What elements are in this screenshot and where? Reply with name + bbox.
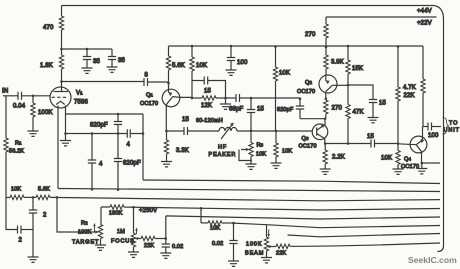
svg-text:0.02: 0.02 (212, 241, 223, 247)
node peaker tap (250, 97, 253, 100)
capacitor 100 (output) (423, 123, 442, 131)
svg-text:SeekIC.com: SeekIC.com (408, 255, 457, 265)
rail B (22V feed) (169, 45, 424, 47)
node A (470/1.8K junction) (60, 48, 63, 51)
svg-text:PEAKER: PEAKER (209, 152, 237, 158)
resistor 47K (346, 85, 350, 144)
resistor 270 (from +22V) (324, 17, 328, 47)
node beam wiper (268, 245, 271, 248)
svg-text:2.2K: 2.2K (332, 155, 345, 161)
svg-text:15: 15 (182, 117, 189, 123)
svg-text:820pF: 820pF (90, 123, 108, 129)
capacitor 0.04 (18, 92, 50, 100)
bus line L1 (143, 180, 440, 184)
resistor 12K (series) (192, 96, 236, 100)
svg-text:35: 35 (118, 58, 125, 64)
transistor Q2 OC170 (319, 75, 348, 93)
svg-text:R1: R1 (15, 141, 22, 147)
bus line L7 (288, 234, 441, 237)
ground (BEAM) (261, 258, 272, 263)
bus line L4 (+260V) (101, 207, 440, 210)
svg-text:470: 470 (43, 25, 54, 31)
resistor 100K (grid leak) (31, 96, 35, 131)
svg-text:10K: 10K (210, 226, 220, 232)
capacitor 4 (vertical, to heater bus) (88, 134, 96, 190)
transistor Q1 OC170 (162, 83, 192, 107)
svg-text:1.8K: 1.8K (40, 63, 53, 69)
capacitor 2 (horizontal) (6, 198, 33, 234)
svg-text:TARGET: TARGET (72, 240, 99, 246)
capacitor 8 (coupling) (144, 78, 169, 86)
node 47K join (347, 142, 350, 145)
svg-text:3.3K: 3.3K (176, 148, 189, 154)
svg-text:0.02: 0.02 (172, 244, 183, 250)
svg-text:OC170: OC170 (299, 143, 317, 149)
svg-text:10K: 10K (256, 152, 266, 158)
potentiometer 1M FOCUS (131, 207, 141, 252)
ground (2.2K) (320, 169, 331, 174)
resistor 10K (rail feed to peaker column) (273, 45, 277, 131)
wire input (3, 95, 18, 97)
ground (0.02 focus) (160, 253, 171, 258)
node L3 at 57 (56, 196, 59, 199)
node L2 at 118 (117, 188, 120, 191)
node R3 top (250, 130, 253, 133)
+44V rail (62, 6, 444, 20)
ground (100 cap) (226, 70, 237, 75)
ground (35 first) (82, 68, 93, 73)
ground (10K damper) (271, 163, 282, 168)
svg-text:56.2K: 56.2K (9, 149, 24, 155)
resistor 10K (Q4 base to ground) (396, 144, 400, 170)
svg-text:+44V: +44V (417, 9, 432, 15)
resistor 270 (Q2 emitter) (324, 100, 328, 119)
node 15K rail (347, 45, 350, 48)
svg-text:15: 15 (257, 107, 264, 113)
svg-text:OC170: OC170 (297, 89, 315, 95)
svg-text:10K: 10K (11, 187, 21, 193)
capacitor 35 (second) (108, 49, 116, 67)
+22V rail (326, 16, 437, 18)
resistor 5.6K (Q1 base bias) (166, 46, 170, 83)
svg-text:Q2: Q2 (305, 80, 312, 86)
svg-text:4: 4 (99, 162, 103, 168)
svg-text:TO: TO (449, 121, 458, 127)
svg-text:270: 270 (332, 106, 343, 112)
svg-text:R3: R3 (257, 143, 264, 149)
svg-text:820pF: 820pF (123, 161, 141, 167)
wire peaker line (237, 130, 313, 132)
bus line L5 (166, 216, 440, 239)
node plate (1.8K / tube plate junction) (60, 80, 63, 83)
node grid input (32, 95, 35, 98)
svg-text:15: 15 (367, 134, 374, 140)
svg-text:Q1: Q1 (146, 93, 153, 99)
ground (R3) (246, 164, 257, 169)
capacitor 15 (series to Q4 base) (371, 140, 416, 148)
wire Q3 emitter to Q4 (325, 143, 371, 145)
node X focus RC (165, 237, 168, 240)
svg-text:270: 270 (305, 32, 316, 38)
ground (15 bypass) (368, 118, 379, 123)
vacuum tube V1 7586 (50, 82, 71, 109)
capacitor 4 (horizontal, series) (127, 129, 130, 137)
bus line L3 (6, 195, 440, 201)
node main wire end at Q2 emitter (325, 97, 328, 100)
brace TO UNIT (443, 118, 449, 135)
node L3 at 33 (32, 196, 35, 199)
svg-text:47K: 47K (353, 110, 364, 116)
svg-text:Q4: Q4 (404, 157, 411, 163)
bus line L6 (234, 223, 441, 228)
svg-text:7586: 7586 (74, 100, 88, 106)
ground (R2) (95, 245, 106, 250)
svg-text:22K: 22K (144, 243, 154, 249)
wire Q2 base bypass (348, 85, 373, 100)
ground (FOCUS) (128, 252, 139, 257)
svg-text:V1: V1 (76, 91, 83, 97)
wire cathode branch to bypass network (66, 113, 144, 115)
resistor 3.9K (Q2 collector) (324, 47, 328, 77)
ground (3.3K) (161, 162, 172, 167)
node Q2 base (347, 84, 350, 87)
wire Q4 emitter (421, 152, 423, 163)
ground (cathode) (60, 134, 71, 146)
resistor 3.3K (Q1 emitter) (164, 131, 168, 162)
potentiometer R3 10K (HF peaker) (239, 131, 253, 164)
bus line L8 (290, 243, 440, 246)
svg-text:OC170: OC170 (401, 164, 419, 170)
node wireB at 143 (142, 132, 145, 135)
resistor 470 (59, 6, 63, 50)
resistor 4.7K (Q4 collector) (421, 46, 425, 127)
capacitor 15 (Q2 base bypass) (369, 100, 377, 118)
svg-text:100: 100 (237, 60, 248, 66)
wire cathode bottom bus (66, 133, 144, 135)
svg-text:100: 100 (428, 133, 439, 139)
wire Q1 emitter (165, 105, 167, 131)
wire decoupled rail from node A (62, 48, 113, 50)
wire target wiper feed (57, 197, 96, 232)
inductor 60-120mH (variable) (219, 123, 237, 140)
capacitor 15 (emitter series to peaker) (167, 127, 220, 135)
svg-text:100K: 100K (38, 110, 53, 116)
svg-text:5.6K: 5.6K (172, 63, 185, 69)
wire cathode lead down (65, 106, 67, 134)
transistor Q4 OC170 (410, 127, 427, 153)
capacitor 15 (peaker series) (247, 98, 255, 131)
right edge vertical bus line (438, 19, 444, 252)
wire Q2 emitter (325, 91, 327, 100)
wire heater lead down from tube (57, 106, 59, 189)
resistor 22K (focus wiper) (141, 236, 166, 240)
svg-text:2: 2 (43, 213, 47, 219)
resistor 22K (Q4 base bias) (396, 45, 400, 143)
resistor 10K (peaker damper) (274, 131, 278, 163)
capacitor 820pF (second) (114, 134, 122, 190)
ground (2 caps) (28, 230, 39, 263)
svg-text:+22V: +22V (417, 21, 432, 27)
node wireB at 92 (91, 132, 94, 135)
resistor 15K (346, 46, 350, 85)
svg-text:8: 8 (145, 73, 149, 79)
node L2 at 92 (91, 188, 94, 191)
node 10K damper top (275, 130, 278, 133)
svg-text:68pF: 68pF (229, 107, 243, 113)
node beam RC (232, 222, 235, 225)
resistor R1 56.2K (4, 96, 8, 198)
wire 10K beam feed riser (200, 207, 203, 223)
svg-text:2: 2 (19, 238, 23, 244)
ground (100K) (28, 131, 39, 136)
capacitor 0.02 (beam) (229, 223, 237, 261)
node Q4 base (397, 142, 400, 145)
resistor 10K (Q1 collector load) (190, 45, 194, 98)
node Q1 emitter junction (165, 130, 168, 133)
capacitor 820pF (first, cathode) (114, 113, 122, 134)
svg-text:3.9K: 3.9K (331, 60, 344, 66)
node Q4 emitter (421, 162, 424, 165)
resistor 10K (beam feed) (201, 221, 234, 225)
ground (12K node) (220, 98, 231, 109)
svg-text:100K: 100K (246, 242, 262, 248)
svg-text:0.04: 0.04 (13, 104, 26, 110)
node cathode ground junction (64, 132, 67, 135)
svg-text:+260V: +260V (139, 208, 157, 214)
capacitor 15 (bypass across 12K) (192, 77, 226, 99)
svg-text:4: 4 (127, 142, 131, 148)
capacitor 35 (first) (83, 48, 91, 68)
svg-text:15: 15 (204, 89, 211, 95)
svg-text:IN: IN (2, 89, 8, 95)
svg-text:60-120mH: 60-120mH (196, 118, 223, 124)
resistor 180K (110, 205, 124, 209)
svg-text:22K: 22K (276, 251, 286, 257)
capacitor 2 (vertical) (29, 197, 37, 229)
svg-text:FOCUS: FOCUS (111, 239, 135, 245)
svg-text:BEAM: BEAM (245, 251, 264, 257)
transistor Q3 OC170 (312, 124, 328, 140)
svg-text:12K: 12K (201, 103, 212, 109)
wire Q3 emitter (324, 139, 326, 144)
capacitor 0.02 (focus) (162, 239, 170, 254)
svg-text:R2: R2 (81, 221, 88, 227)
svg-text:15K: 15K (352, 66, 363, 72)
bus line L2 (58, 189, 440, 192)
svg-text:10K: 10K (381, 156, 392, 162)
wire Q4 emitter to edge (422, 162, 440, 164)
node Q1 base (167, 82, 170, 85)
svg-text:UNIT: UNIT (444, 128, 460, 134)
svg-text:10K: 10K (279, 71, 290, 77)
ground (10K Q4) (393, 169, 404, 174)
capacitor 100 (rail bypass) (227, 45, 235, 70)
svg-text:1M: 1M (117, 229, 125, 235)
node Q1 collector (191, 97, 194, 100)
svg-text:22K: 22K (404, 93, 415, 99)
svg-text:820pF: 820pF (277, 107, 294, 113)
wire vertical junction riser (142, 114, 144, 180)
svg-text:180K: 180K (109, 211, 123, 217)
wire Q3 collector (324, 119, 326, 126)
svg-text:100K: 100K (78, 230, 92, 236)
ground (35 second) (107, 67, 118, 72)
svg-text:4.7K: 4.7K (403, 85, 416, 91)
ground (0.02 beam) (228, 261, 239, 266)
svg-text:35: 35 (93, 59, 100, 65)
svg-text:Q3: Q3 (302, 136, 309, 142)
wire plate to coupling cap (62, 81, 145, 83)
svg-text:HF: HF (218, 145, 227, 151)
capacitor 68pF (series) (236, 94, 300, 102)
svg-text:15: 15 (379, 101, 386, 107)
resistor 1.8K (59, 49, 63, 82)
node 12K output (224, 97, 227, 100)
resistor 2.2K (Q3 emitter) (323, 144, 327, 170)
potentiometer R2 100K TARGET (93, 207, 103, 245)
capacitor 820pF (to Q3 base drive) (296, 97, 326, 118)
ground (Q4 emitter) (416, 163, 427, 174)
svg-text:5.6K: 5.6K (38, 187, 50, 193)
svg-text:10K: 10K (282, 149, 292, 155)
svg-text:10K: 10K (196, 63, 207, 69)
node rail at 270 (325, 46, 328, 49)
node wireB at 118 (117, 132, 120, 135)
node FOCUS top (132, 206, 135, 209)
potentiometer 100K BEAM (264, 225, 270, 258)
svg-text:OC170: OC170 (140, 101, 158, 107)
resistor 22K (beam wiper) (270, 244, 291, 248)
node Q3 emitter junction (324, 142, 327, 145)
